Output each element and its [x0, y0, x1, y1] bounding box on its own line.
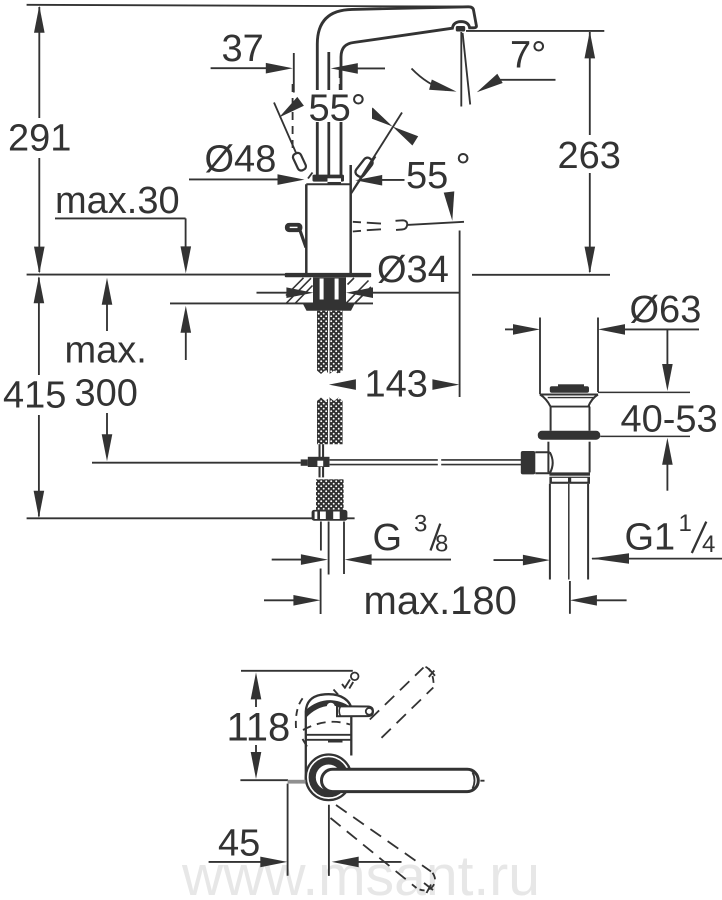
lever end inner ellipse [473, 772, 475, 789]
dashed handle down cap [420, 873, 436, 891]
shank slit left [320, 279, 324, 300]
spout cap white notch [328, 178, 342, 182]
arrow 263 up [585, 31, 596, 58]
lever end tick [480, 780, 484, 782]
front dashes near spout [334, 684, 346, 695]
7deg label leader line [495, 79, 556, 81]
arrow 118 down [251, 752, 262, 779]
O63 extension left [539, 318, 541, 395]
dim 45 right tail [358, 861, 401, 863]
arrow 45 left head [260, 857, 287, 868]
svg-text:1: 1 [679, 510, 692, 537]
svg-text:143: 143 [365, 363, 428, 405]
mounting nut [303, 304, 355, 311]
G114 left leader [494, 559, 524, 561]
40-53 lower shaft [666, 465, 668, 491]
text 263 [553, 136, 623, 172]
dim max300 lower shaft [106, 412, 108, 435]
arrow max30 down [181, 246, 192, 273]
drain flange right curve [588, 395, 598, 407]
O63 underline right [624, 328, 699, 330]
dashed handle up line 1 [370, 668, 424, 720]
drain center tick [569, 581, 571, 614]
deck bottom line [170, 302, 373, 304]
dim 37 extension line [293, 53, 295, 93]
svg-text:263: 263 [558, 135, 621, 177]
svg-text:415: 415 [3, 375, 66, 417]
text G114 slash [692, 522, 707, 553]
svg-text:40-53: 40-53 [621, 399, 718, 441]
svg-text:55: 55 [406, 155, 448, 197]
spout tip reference line 263 [466, 30, 604, 32]
40-53 upper shaft [666, 329, 668, 364]
arrow 55-1 head [279, 97, 304, 118]
arrow 291 down [34, 247, 45, 274]
drain lower body right [589, 442, 591, 473]
pop-up knob [521, 451, 536, 474]
lever up-right stub [354, 156, 374, 178]
arrow 37 left [331, 63, 358, 74]
front body joint line 1 [306, 734, 352, 736]
arrow O63 left [513, 324, 540, 335]
drain cone band slots [552, 478, 568, 482]
rod tube below cross [319, 467, 325, 477]
arrow 415 up [34, 276, 45, 303]
lower nut white slots [315, 512, 318, 520]
front body left edge [305, 712, 307, 781]
dim 37 leader right [356, 67, 385, 69]
dim max300 upper shaft [106, 304, 108, 331]
spout bend dashed centerline [339, 70, 341, 97]
svg-text:max.: max. [65, 330, 147, 372]
front body right edge [350, 710, 352, 756]
dim 263 vertical [589, 32, 591, 135]
arrow G38 right head [345, 554, 372, 565]
dim G38 leader left [272, 559, 302, 561]
spout middle contour [327, 52, 330, 175]
arrow G114 underline head [591, 553, 629, 564]
front rod left edge [287, 784, 289, 876]
arrow O48 right head [355, 175, 382, 186]
arrow max300 down [102, 434, 113, 461]
svg-text:Ø63: Ø63 [630, 289, 702, 331]
dim max30 underline [55, 217, 186, 219]
drain cone band 2 [549, 477, 590, 484]
arrow O63 right [598, 324, 625, 335]
svg-text:7°: 7° [510, 35, 546, 77]
lever horizontal [322, 769, 479, 791]
dim max180 right tail [597, 599, 627, 601]
pull rod knob on body [286, 224, 301, 231]
svg-text:291: 291 [8, 118, 71, 160]
lever stub lower edge line [351, 157, 376, 194]
lever down leader line [407, 222, 464, 225]
40-53 lower ref line [600, 435, 690, 437]
dim line 291 vertical [38, 7, 40, 118]
spout outer profile [317, 7, 476, 175]
front spout tip hooks [345, 680, 353, 689]
text 291 [4, 119, 71, 157]
svg-text:Ø48: Ø48 [205, 139, 277, 181]
FRONT VIEW [209, 667, 485, 893]
dim G38 leader right [371, 559, 451, 561]
dashed handle down line 2 [331, 818, 417, 888]
dim 45 left line [209, 861, 261, 863]
40-53 upper ref line [598, 391, 690, 393]
arrow 40-53 up [662, 438, 673, 465]
threaded shank segment 2 [317, 398, 343, 445]
dim O34 leader right [372, 292, 460, 294]
hose line 2 [328, 522, 330, 575]
drain plug cap top [558, 384, 584, 387]
svg-text:4: 4 [702, 531, 715, 558]
lever up-left position line [274, 103, 299, 159]
arrow 7deg label head [477, 74, 503, 92]
pivot ring [312, 761, 345, 794]
text 40-53 [617, 402, 722, 434]
arrow O34 left head [286, 287, 313, 298]
rod tube above cross [319, 444, 325, 458]
text 55-1 [305, 90, 372, 122]
front pin end circle [366, 708, 373, 715]
dashed handle up line 2 [382, 688, 434, 738]
front top reference line [241, 670, 353, 672]
spout cap notch underline [328, 182, 342, 184]
lever swing bowtie head upper [367, 108, 393, 127]
arrow 143 right head [432, 379, 459, 390]
drain seal ring [538, 431, 600, 440]
dim 118 shaft lower [255, 745, 257, 753]
front dashed body arc [303, 722, 350, 730]
hatch right deck [347, 278, 372, 303]
dim max30 lower shaft [185, 332, 187, 360]
bottom reference line 415 [27, 517, 355, 519]
hose line 1 [320, 522, 322, 551]
svg-text:45: 45 [218, 823, 260, 865]
pop-up rod long line [92, 462, 301, 464]
arrow 45 right head [332, 857, 359, 868]
G114 underline [592, 558, 722, 560]
threaded shank segment 3 [316, 479, 344, 510]
drain plug cap [550, 386, 589, 392]
water stream 7deg line [463, 33, 471, 105]
dim 118 bottom ref line [240, 779, 288, 781]
cross fitting white square [317, 461, 323, 467]
body right edge [349, 165, 352, 274]
arrow 37 right [266, 63, 293, 74]
front band white notch [327, 703, 335, 711]
cross fitting left tab [301, 459, 308, 465]
escutcheon flange bar [285, 273, 371, 277]
front center line below pivot [328, 805, 330, 876]
dashed handle down line 1 [336, 805, 431, 872]
lever down end cap [396, 220, 408, 230]
water stream vertical line [460, 32, 462, 107]
dim 37 leader left [211, 67, 267, 69]
arrow G114 right-point head [523, 555, 550, 566]
tailpipe right [587, 484, 589, 580]
dim 415 vertical [38, 278, 40, 376]
body left edge [305, 184, 308, 273]
svg-text:G: G [373, 517, 403, 559]
drain lower body left [547, 442, 549, 473]
drain cone band 1 [549, 472, 590, 475]
drain flange top line [540, 394, 598, 396]
hose line 3 [343, 522, 345, 575]
dashed handle down cross tick [424, 883, 433, 893]
svg-text:max.30: max.30 [55, 180, 180, 222]
lever up-right position line [353, 113, 402, 191]
lever swing bowtie head lower [393, 127, 419, 146]
svg-text:3: 3 [414, 510, 427, 537]
pull rod strut [300, 229, 307, 248]
svg-text:max.180: max.180 [364, 579, 517, 623]
front body dome [306, 694, 352, 711]
arrow 55-2 down head [444, 191, 455, 220]
tailpipe left [549, 484, 551, 580]
drain body left edge [550, 407, 552, 431]
pop-up rod continuation after break [441, 460, 521, 465]
arrow 291 up [34, 6, 45, 33]
lever up-left stub [292, 152, 307, 172]
lever down dashed taper top [353, 222, 381, 224]
dim max30 drop line [185, 218, 187, 247]
arrow 40-53 down [662, 364, 673, 391]
deck line left span [27, 274, 371, 276]
pull rod knob slot [290, 226, 298, 228]
svg-text:55°: 55° [309, 87, 366, 129]
front pin left ellipse [339, 706, 340, 716]
text 415 [0, 376, 73, 414]
arrow max180 left head [293, 595, 320, 606]
front dashed arc lower [303, 739, 308, 747]
svg-text:°: ° [456, 147, 471, 189]
svg-text:118: 118 [227, 706, 291, 750]
svg-text:G1: G1 [625, 516, 676, 558]
body top line [306, 183, 350, 185]
O63 extension right [597, 318, 599, 393]
lever down dashed taper bottom [353, 229, 381, 231]
mounting shank black [313, 277, 346, 304]
drain flange left curve [540, 395, 551, 407]
dim O34 leader left [257, 292, 289, 294]
O63 leader left [505, 328, 514, 330]
tailpipe center seam [568, 484, 570, 580]
drain body right edge [589, 407, 591, 431]
svg-text:Ø34: Ø34 [377, 249, 449, 291]
dashed handle up cap [426, 667, 434, 685]
drain knob cylinder cap [550, 452, 553, 473]
arrow 415 down [34, 491, 45, 518]
hatch left deck [286, 278, 313, 303]
threaded shank segment 1 [317, 311, 343, 374]
text 118 [223, 708, 291, 745]
wire top reference line 291 [27, 5, 470, 7]
dim 118 shaft upper [255, 699, 257, 707]
aerator blob [456, 26, 465, 32]
spout cap black bar [313, 175, 345, 182]
dim O48 leader left [189, 178, 279, 180]
front dashed arc left [296, 696, 305, 729]
arrow max300 up [102, 278, 113, 305]
pop-up rod double line right of cross [330, 460, 438, 465]
text 300 [71, 375, 144, 413]
arrow max30 up (below deck) [181, 306, 192, 333]
front black spout band [306, 700, 352, 718]
drain neck thin line [548, 397, 594, 399]
arrow O48 left head [278, 174, 305, 185]
drain neck bottom line [551, 406, 591, 408]
text G38 slash [431, 524, 441, 551]
front gray bar [288, 780, 306, 784]
deck line right span [472, 274, 610, 276]
drain knob cylinder [535, 452, 550, 473]
front pin cylinder [337, 706, 373, 716]
arrow 7deg arc head [429, 80, 456, 92]
front body joint line 2 [306, 739, 352, 741]
dim O48/55 leader right [380, 179, 405, 181]
arrow 118 up [251, 672, 262, 699]
body top left chamfer tick [308, 173, 313, 179]
lever pivot dashed centerline [292, 84, 294, 150]
vertical line right of O34 [459, 231, 461, 398]
dashed handle up cross tick [429, 669, 436, 678]
arrow O34 right head [346, 287, 373, 298]
arrow max180 right head [570, 595, 597, 606]
dim max180 left line [264, 599, 294, 601]
shank slit right [335, 279, 339, 300]
arrow 263 down [585, 247, 596, 274]
svg-text:300: 300 [75, 373, 138, 415]
lower nut [312, 510, 348, 521]
svg-text:37: 37 [222, 28, 264, 70]
text max [62, 332, 151, 366]
thread center white line [328, 311, 330, 374]
dim max180 left tick [320, 569, 322, 615]
arrow G38 left head [301, 554, 328, 565]
7deg arc arrow curve [412, 69, 447, 91]
front joint black tick [328, 739, 343, 742]
arrow 143 left head [329, 379, 356, 390]
cross fitting bar [308, 457, 330, 467]
pivot outer circle [306, 755, 352, 801]
front aerator circle [351, 673, 359, 681]
